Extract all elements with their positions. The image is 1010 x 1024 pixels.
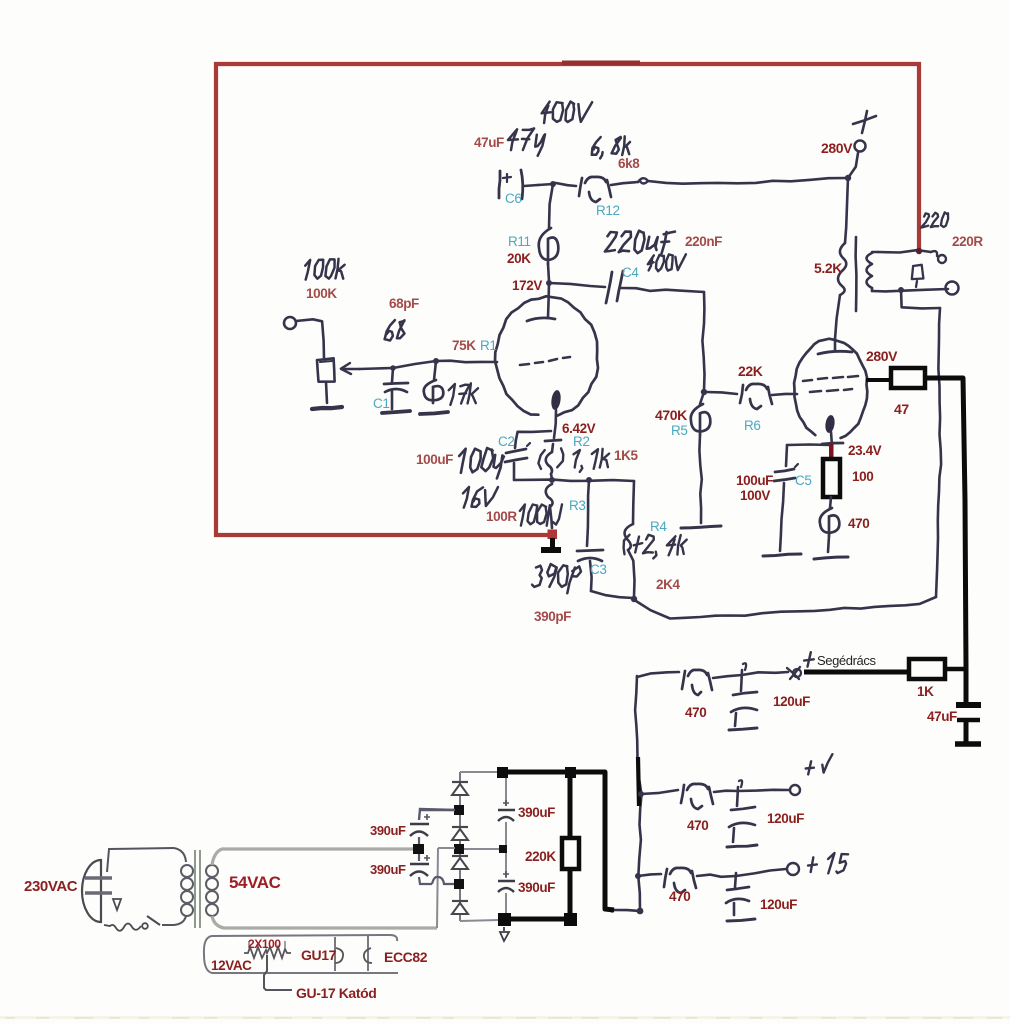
V1 cathode — [550, 389, 562, 410]
wire node to R6 — [706, 392, 737, 394]
220K resistor black — [568, 778, 573, 838]
svg-text:390uF: 390uF — [370, 862, 406, 877]
secondary top long wire — [212, 849, 414, 865]
svg-text:390uF: 390uF — [518, 880, 555, 895]
svg-text:230VAC: 230VAC — [24, 878, 78, 895]
svg-text:100R: 100R — [486, 509, 517, 524]
svg-text:1K: 1K — [917, 684, 934, 699]
V1 anode lead — [548, 283, 549, 317]
svg-text:20K: 20K — [507, 251, 531, 266]
svg-text:C5: C5 — [795, 473, 811, 488]
svg-text:120uF: 120uF — [767, 811, 804, 826]
handwritten 100u near C2 — [459, 449, 466, 473]
transformer core — [194, 850, 196, 928]
handwritten 68 — [385, 320, 395, 340]
svg-text:5.2K: 5.2K — [814, 260, 842, 276]
V2 cathode — [824, 414, 835, 433]
svg-text:68pF: 68pF — [389, 296, 419, 311]
resistor R1 75K (grid leak) — [434, 361, 436, 380]
wire plug to primary — [107, 848, 174, 872]
wire pot to C1/R1 node — [359, 368, 393, 369]
mid node black square — [413, 844, 424, 854]
node 172V anode junction — [546, 280, 552, 286]
resistor 100 (black) — [823, 459, 840, 497]
left 390uF cap B — [418, 854, 420, 861]
ground under R1 — [420, 412, 448, 414]
mains plug — [82, 860, 101, 922]
ground under 470 — [814, 557, 848, 559]
heater winding box 12VAC — [204, 936, 212, 973]
heater center tap — [264, 955, 292, 990]
node C6/R11/R12 — [550, 181, 556, 187]
280V terminal — [848, 153, 858, 178]
svg-text:470: 470 — [685, 705, 706, 720]
ground (black) at R3/red node — [550, 538, 555, 549]
svg-text:172V: 172V — [512, 278, 542, 293]
pigtail loop in wire — [638, 178, 648, 183]
svg-text:1K5: 1K5 — [614, 448, 638, 463]
svg-text:22K: 22K — [738, 363, 763, 379]
diode — [452, 826, 468, 828]
svg-text:12VAC: 12VAC — [211, 958, 252, 973]
thick black bus bottom — [504, 917, 570, 922]
svg-text:100: 100 — [852, 469, 873, 484]
capacitor C6 47uF — [499, 171, 500, 198]
svg-text:75K: 75K — [452, 338, 476, 353]
handwritten (+2,4k — [624, 535, 630, 555]
tap bus vertical — [635, 676, 641, 911]
terminal +V — [790, 785, 800, 795]
ground under C1 — [382, 411, 410, 413]
secondary winding — [206, 865, 218, 877]
svg-text:47uF: 47uF — [927, 709, 957, 724]
node2 wire left to riser — [438, 847, 455, 849]
svg-text:280V: 280V — [821, 140, 853, 156]
svg-text:390uF: 390uF — [518, 805, 555, 820]
svg-text:220R: 220R — [952, 234, 983, 249]
capacitor C2 100uF — [506, 449, 526, 453]
transformer core line — [854, 237, 857, 311]
long wire to 280V node — [648, 178, 846, 184]
V2 grid dashes row1 — [803, 380, 812, 381]
svg-text:2K4: 2K4 — [656, 577, 680, 592]
handwritten 1,1k value — [574, 450, 580, 468]
middle column with right 390uF caps — [505, 777, 507, 806]
svg-text:470: 470 — [687, 818, 708, 833]
resistor R6 22K — [740, 385, 743, 403]
svg-text:C4: C4 — [622, 265, 639, 280]
wire cathode to C2 — [515, 431, 551, 448]
pentode V2 envelope — [794, 339, 867, 438]
svg-text:C2: C2 — [498, 434, 514, 449]
resistor R11 20K — [549, 184, 553, 228]
resistor R3 100R — [546, 484, 553, 507]
node cathode rail left — [549, 477, 555, 483]
handwritten 400V near C4 — [648, 255, 654, 264]
pot wiper arrow — [343, 368, 359, 371]
diode column — [459, 772, 461, 921]
hop over riser — [432, 877, 454, 884]
svg-text:100uF: 100uF — [736, 473, 773, 488]
riser to diode node2 — [437, 848, 438, 928]
handwritten 220 at transformer — [921, 213, 929, 227]
bus bottom junction — [637, 908, 644, 915]
diode node squares — [454, 805, 464, 815]
switch — [147, 916, 160, 925]
black overlay segment on bus — [638, 757, 639, 806]
cathode rail — [514, 480, 634, 481]
svg-text:C1: C1 — [373, 396, 389, 411]
thick segedracs wire — [804, 670, 909, 675]
pot ground lead — [326, 382, 327, 403]
ground under pot — [312, 407, 342, 409]
svg-text:GU-17 Katód: GU-17 Katód — [296, 985, 376, 1001]
capacitor C1 — [392, 368, 393, 382]
wire node to tube grid — [436, 361, 497, 363]
secondary bottom long wire — [212, 916, 437, 928]
red node square on cathode R3 — [548, 530, 558, 540]
diode — [452, 900, 468, 902]
svg-text:390pF: 390pF — [534, 609, 571, 624]
resistor R2 1K5 cathode — [552, 444, 553, 452]
svg-text:R2: R2 — [573, 434, 589, 449]
svg-text:100K: 100K — [306, 286, 337, 301]
svg-text:100V: 100V — [740, 488, 770, 503]
svg-text:280V: 280V — [866, 348, 898, 364]
wire C4 to R5/R6 node — [621, 288, 704, 292]
secondary bottom wire — [872, 289, 948, 291]
svg-text:23.4V: 23.4V — [848, 443, 882, 458]
terminal + segedracs — [793, 669, 801, 677]
psu ground arrow — [500, 927, 509, 941]
V2 grid dashes row2 — [810, 391, 821, 392]
left 390uF cap A — [419, 809, 455, 820]
thick wire down — [925, 378, 966, 668]
feedback wire from secondary — [901, 290, 940, 308]
svg-text:ECC82: ECC82 — [384, 949, 428, 965]
node at C1 — [390, 365, 396, 371]
node1 wire to cap A — [420, 809, 455, 811]
V2 anode plate bar — [818, 351, 852, 354]
ground under R5 — [681, 526, 721, 528]
svg-text:GU17: GU17 — [301, 947, 337, 963]
diode — [452, 781, 468, 783]
V1 grid dashes — [520, 364, 529, 365]
svg-text:R4: R4 — [650, 519, 667, 534]
capacitor C5 100uF — [786, 445, 787, 466]
node2 wire right — [464, 848, 500, 850]
resistor 470 under 100 — [830, 497, 831, 508]
svg-text:54VAC: 54VAC — [229, 873, 281, 892]
svg-text:R5: R5 — [671, 423, 687, 438]
heater hook ECC82 — [364, 948, 372, 963]
svg-text:100uF: 100uF — [416, 452, 453, 467]
svg-text:C6: C6 — [505, 191, 521, 206]
handwritten 220uF — [605, 232, 617, 252]
wire V2 anode to 47 — [866, 378, 891, 382]
svg-text:6k8: 6k8 — [618, 156, 640, 171]
120uF cap3 — [735, 873, 736, 887]
resistor R12 6k8 — [556, 183, 576, 186]
heater hook GU17 — [335, 948, 343, 963]
svg-text:120uF: 120uF — [773, 694, 810, 709]
svg-text:R12: R12 — [596, 203, 620, 218]
svg-text:120uF: 120uF — [760, 897, 797, 912]
120uF cap2 — [737, 787, 738, 806]
wire to C4 — [549, 283, 605, 287]
svg-text:R11: R11 — [508, 234, 531, 249]
handwritten 17k near R1 — [449, 384, 455, 405]
handwritten 100 ohm — [520, 505, 525, 526]
wire cathode to C5 — [787, 443, 830, 446]
2x100 resistors zigzag — [244, 947, 291, 958]
svg-text:470: 470 — [669, 889, 690, 904]
handwritten 47u — [508, 129, 518, 140]
resistor R4 2K4 — [633, 481, 634, 524]
fuse — [104, 924, 141, 931]
primary winding — [181, 865, 193, 877]
scan artifact strip — [0, 1016, 1010, 1019]
output transformer winding — [867, 253, 873, 288]
resistor 47 (black) — [891, 368, 925, 388]
red feedback frame wire — [216, 64, 919, 535]
terminal +15 — [787, 863, 799, 875]
branch 1: segedracs 470 + 120uF — [637, 672, 679, 677]
svg-text:2X100: 2X100 — [248, 937, 281, 951]
thick black bus top — [503, 772, 614, 910]
volume pot box — [317, 358, 335, 381]
handwritten 400V top — [542, 102, 551, 114]
svg-text:R3: R3 — [569, 498, 585, 513]
handwritten 100k input — [305, 260, 310, 280]
secondary top wire to red node — [878, 250, 931, 252]
1K resistor (black) — [909, 659, 945, 679]
secondary middle component — [912, 265, 924, 279]
svg-text:220nF: 220nF — [685, 234, 722, 249]
svg-text:C3: C3 — [590, 562, 606, 577]
branch 3: +15 470 + 120uF — [635, 873, 641, 879]
handwritten 390p — [532, 566, 542, 587]
svg-text:R6: R6 — [744, 418, 760, 433]
svg-text:220K: 220K — [525, 849, 556, 864]
ground under C5 — [763, 554, 801, 556]
diode — [452, 855, 468, 857]
capacitor 47uF (black) — [964, 668, 969, 702]
V1 anode plate bar — [527, 318, 555, 321]
svg-text:390uF: 390uF — [370, 823, 406, 838]
svg-text:470K: 470K — [655, 407, 687, 423]
node at R1 — [433, 358, 439, 364]
capacitor C3 390pF — [587, 480, 589, 546]
resistor 5.2K primary — [845, 178, 848, 243]
svg-text:470: 470 — [848, 516, 869, 531]
input jack terminal — [284, 317, 296, 329]
handwritten 16V — [463, 487, 469, 508]
resistor R5 470K — [700, 392, 704, 404]
col top/bottom gray wires — [460, 771, 500, 773]
capacitor C4 220nF — [606, 272, 612, 303]
svg-text:R1: R1 — [480, 338, 496, 353]
svg-text:Segédrács: Segédrács — [817, 653, 876, 668]
handwritten 6,8k — [592, 137, 601, 155]
primary bottom to switch — [162, 916, 186, 925]
red stub 23.4V — [829, 444, 834, 460]
wire — [393, 361, 436, 368]
svg-text:47uF: 47uF — [474, 135, 504, 150]
svg-text:47: 47 — [894, 401, 909, 417]
branch 2: +V 470 + 120uF — [638, 791, 644, 797]
handwritten ( ) around R2 — [538, 450, 544, 469]
plus sign — [853, 116, 876, 124]
wire jack to pot — [296, 319, 324, 358]
120uF cap1 — [741, 670, 742, 691]
triode V1 envelope — [495, 296, 598, 415]
